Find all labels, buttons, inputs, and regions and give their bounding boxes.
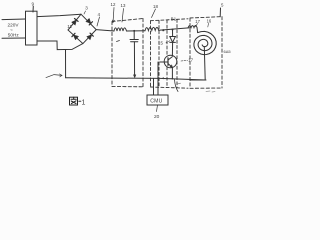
diode D15 lead	[172, 30, 174, 37]
svg-text:15: 15	[158, 40, 163, 45]
svg-text:17: 17	[188, 57, 193, 62]
ground rail	[66, 78, 206, 80]
wire transformer top output	[37, 14, 81, 16]
capacitor C1 plates	[130, 40, 138, 42]
node dot	[133, 30, 135, 32]
coil center lead to rail	[190, 47, 205, 81]
leader 17	[181, 59, 188, 62]
svg-text:3: 3	[85, 5, 88, 10]
transistor base bar	[167, 58, 169, 66]
driver box dashed right edges	[176, 19, 178, 87]
box top lead	[219, 8, 221, 17]
diode D1 top-left	[72, 20, 77, 25]
diode D4 bottom-right	[87, 35, 92, 40]
svg-text:20: 20	[154, 114, 160, 120]
wire mains neutral	[2, 37, 26, 39]
svg-text:11: 11	[67, 24, 72, 29]
arrow 12	[113, 8, 114, 23]
tiny mark 16b	[178, 82, 181, 85]
entry choke humps	[188, 25, 197, 27]
svg-text:5: 5	[221, 3, 224, 8]
gate return stub	[175, 80, 179, 92]
driver box dashed bottoms	[151, 87, 189, 88]
arrow 13	[122, 9, 124, 23]
svg-text:CMU: CMU	[150, 99, 162, 105]
svg-text:17: 17	[195, 19, 200, 24]
wire	[159, 28, 190, 30]
CMU box 20	[147, 95, 168, 105]
wire	[127, 30, 146, 32]
transistor collector stroke	[168, 57, 172, 60]
rail node dot	[172, 78, 174, 80]
driver box dashed mid edge	[159, 20, 167, 87]
leader 15	[166, 41, 170, 43]
wire mains live	[2, 18, 26, 21]
base drive line	[157, 62, 159, 95]
transistor Q17 circle	[164, 55, 177, 68]
svg-text:16: 16	[207, 19, 212, 24]
wire dc negative drop	[65, 50, 67, 78]
svg-text:13: 13	[121, 3, 126, 8]
arrow 18	[152, 9, 156, 18]
induction coil spiral 16	[194, 31, 216, 54]
diode D3 bottom-left	[73, 35, 78, 40]
node dot	[172, 29, 174, 31]
rail node dot	[157, 77, 159, 79]
svg-text:18: 18	[153, 4, 158, 9]
wire dc positive rail	[96, 30, 114, 31]
junction arrow at rail	[133, 75, 135, 78]
bridge rectifier 11 outline	[68, 14, 96, 43]
mains label 220V 50Hz	[8, 23, 20, 38]
leader tick 16	[207, 23, 210, 27]
diode D15 lower lead	[171, 42, 173, 55]
svg-text:50Hz: 50Hz	[8, 32, 20, 37]
leader 20	[157, 105, 158, 112]
driver box dashed left edge	[150, 21, 152, 87]
svg-text:6Δ5: 6Δ5	[224, 49, 232, 54]
cmu left lead	[153, 78, 155, 95]
faint marks below box	[206, 91, 215, 92]
node dot	[162, 29, 164, 31]
leader 10	[46, 75, 62, 78]
inductor L2	[145, 27, 159, 30]
inductor L1	[114, 28, 127, 31]
svg-text:12: 12	[111, 2, 116, 7]
emitter lead to rail	[171, 67, 173, 78]
svg-text:B1: B1	[171, 17, 177, 22]
capacitor C1 lower lead	[133, 42, 135, 77]
svg-text:4: 4	[98, 12, 101, 17]
transistor emitter stroke	[168, 64, 172, 68]
label 4 leader	[97, 17, 100, 26]
wire to coil	[196, 28, 199, 33]
tick 7	[117, 41, 120, 42]
transistor base lead	[160, 61, 168, 63]
diode D2 top-right	[86, 18, 91, 23]
driver box dashed top	[151, 19, 189, 21]
capacitor C1 lead	[133, 31, 135, 39]
diode D15	[170, 37, 176, 43]
svg-text:1: 1	[82, 99, 86, 106]
figure caption 图-1	[70, 97, 78, 105]
emitter arrowhead	[170, 65, 173, 68]
leader tick 17b	[196, 24, 198, 27]
heating coil box dashed 16	[190, 17, 222, 89]
svg-text:9: 9	[32, 2, 35, 7]
wire transformer bottom output	[37, 41, 83, 50]
transformer block 9	[26, 11, 38, 45]
emc filter box dashed 12	[112, 19, 143, 87]
rail node dot	[162, 77, 164, 79]
label 9 lead	[32, 6, 34, 12]
